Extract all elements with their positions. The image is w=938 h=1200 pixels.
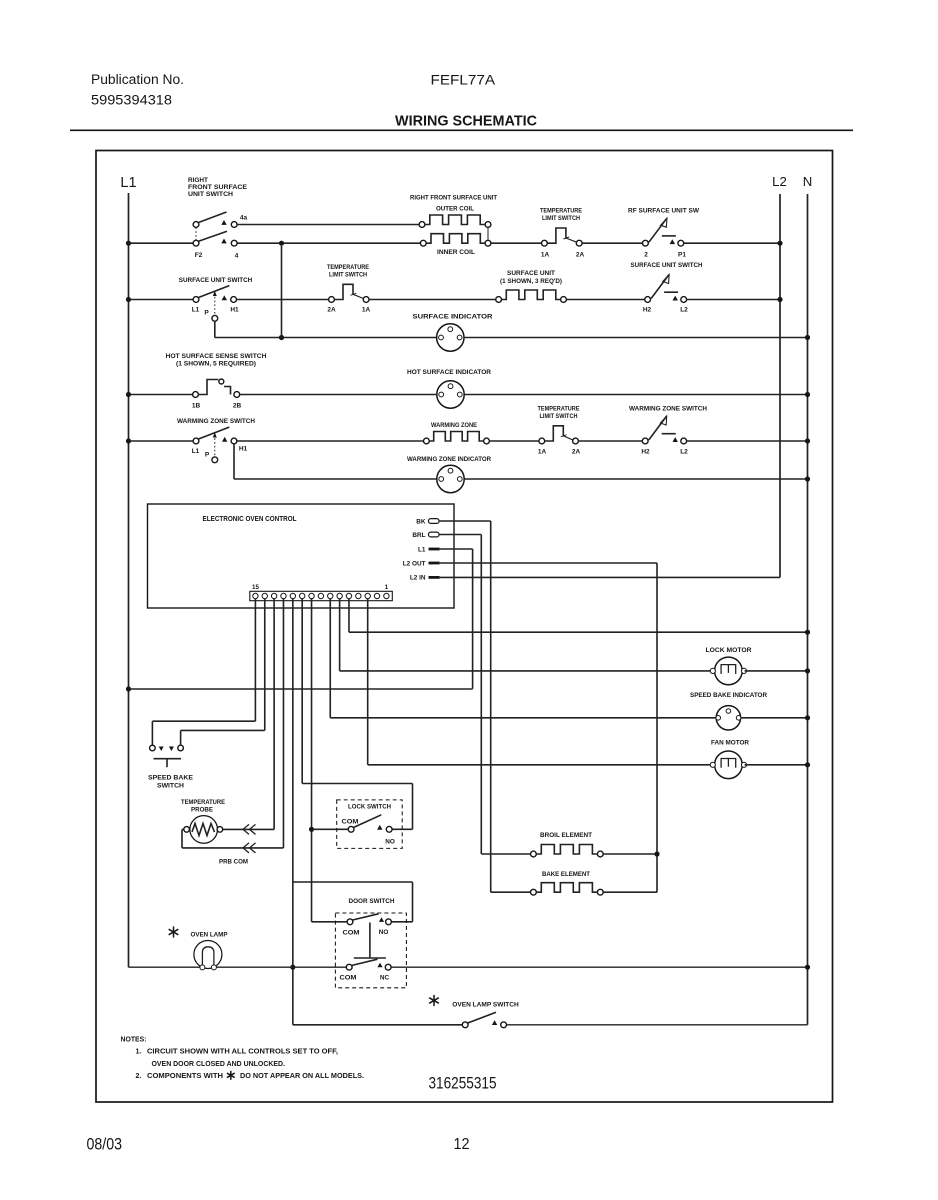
svg-text:L2: L2 — [772, 174, 787, 189]
svg-text:CIRCUIT SHOWN WITH ALL CONTROL: CIRCUIT SHOWN WITH ALL CONTROLS SET TO O… — [147, 1049, 338, 1056]
svg-text:LOCK MOTOR: LOCK MOTOR — [706, 647, 752, 654]
svg-text:2.: 2. — [136, 1073, 142, 1080]
svg-text:RIGHT FRONT SURFACE UNIT: RIGHT FRONT SURFACE UNIT — [410, 195, 497, 202]
svg-text:1A: 1A — [541, 252, 550, 259]
svg-text:12: 12 — [454, 1136, 470, 1153]
svg-text:SURFACE UNIT SWITCH: SURFACE UNIT SWITCH — [631, 262, 703, 269]
svg-text:COM: COM — [340, 975, 357, 982]
svg-text:FAN MOTOR: FAN MOTOR — [711, 740, 749, 747]
svg-text:NOTES:: NOTES: — [121, 1035, 147, 1044]
svg-text:L2 IN: L2 IN — [410, 575, 426, 582]
svg-text:DO NOT APPEAR ON ALL MODELS.: DO NOT APPEAR ON ALL MODELS. — [240, 1073, 364, 1080]
svg-text:(1 SHOWN, 3 REQ'D): (1 SHOWN, 3 REQ'D) — [500, 278, 562, 285]
svg-text:NC: NC — [380, 975, 390, 982]
svg-text:5995394318: 5995394318 — [91, 93, 172, 108]
svg-text:BROIL ELEMENT: BROIL ELEMENT — [540, 832, 592, 839]
svg-text:1A: 1A — [538, 449, 547, 456]
svg-text:TEMPERATURE: TEMPERATURE — [540, 208, 583, 215]
svg-text:SURFACE UNIT: SURFACE UNIT — [507, 270, 555, 277]
svg-text:H2: H2 — [643, 307, 652, 314]
svg-text:HOT SURFACE INDICATOR: HOT SURFACE INDICATOR — [407, 369, 491, 376]
svg-text:LIMIT SWITCH: LIMIT SWITCH — [540, 413, 578, 420]
svg-text:1.: 1. — [136, 1049, 142, 1056]
svg-text:4a: 4a — [240, 215, 248, 222]
svg-text:1A: 1A — [362, 307, 371, 314]
svg-text:BK: BK — [416, 518, 426, 525]
svg-text:SPEED BAKE: SPEED BAKE — [148, 775, 194, 782]
svg-text:SURFACE INDICATOR: SURFACE INDICATOR — [413, 314, 493, 321]
svg-text:WARMING ZONE SWITCH: WARMING ZONE SWITCH — [177, 418, 255, 425]
svg-text:TEMPERATURE: TEMPERATURE — [181, 799, 226, 806]
svg-text:COM: COM — [343, 930, 360, 937]
svg-text:P: P — [204, 310, 209, 317]
svg-text:COM: COM — [342, 819, 359, 826]
svg-text:HOT SURFACE SENSE SWITCH: HOT SURFACE SENSE SWITCH — [166, 353, 267, 360]
svg-text:SPEED BAKE INDICATOR: SPEED BAKE INDICATOR — [690, 692, 767, 699]
svg-text:LIMIT SWITCH: LIMIT SWITCH — [542, 215, 580, 222]
svg-text:L1: L1 — [192, 448, 200, 455]
svg-text:TEMPERATURE: TEMPERATURE — [327, 264, 370, 271]
svg-text:FRONT SURFACE: FRONT SURFACE — [188, 184, 248, 191]
svg-text:PROBE: PROBE — [191, 807, 214, 814]
svg-text:1: 1 — [385, 584, 389, 591]
svg-text:2A: 2A — [572, 449, 581, 456]
svg-text:L1: L1 — [120, 175, 136, 191]
svg-text:ELECTRONIC OVEN CONTROL: ELECTRONIC OVEN CONTROL — [203, 516, 298, 523]
svg-text:316255315: 316255315 — [429, 1075, 497, 1093]
svg-text:COMPONENTS WITH: COMPONENTS WITH — [147, 1073, 223, 1080]
svg-text:WARMING ZONE SWITCH: WARMING ZONE SWITCH — [629, 406, 707, 413]
svg-text:P: P — [205, 452, 210, 459]
svg-text:INNER COIL: INNER COIL — [437, 249, 475, 256]
svg-text:WIRING SCHEMATIC: WIRING SCHEMATIC — [395, 113, 537, 130]
svg-text:H1: H1 — [230, 307, 239, 314]
svg-text:L1: L1 — [418, 546, 426, 553]
svg-text:Publication No.: Publication No. — [91, 72, 184, 87]
svg-text:SURFACE UNIT SWITCH: SURFACE UNIT SWITCH — [179, 277, 253, 284]
svg-text:RF SURFACE UNIT SW: RF SURFACE UNIT SW — [628, 208, 700, 215]
svg-text:1B: 1B — [192, 403, 201, 410]
svg-text:SWITCH: SWITCH — [157, 783, 184, 790]
svg-text:LOCK SWITCH: LOCK SWITCH — [348, 804, 391, 811]
svg-text:PRB COM: PRB COM — [219, 859, 248, 866]
svg-text:OVEN DOOR CLOSED AND UNLOCKED.: OVEN DOOR CLOSED AND UNLOCKED. — [152, 1061, 286, 1068]
svg-text:H2: H2 — [641, 449, 650, 456]
svg-text:L1: L1 — [192, 307, 200, 314]
svg-text:UNIT SWITCH: UNIT SWITCH — [188, 191, 233, 198]
svg-text:RIGHT: RIGHT — [188, 177, 208, 184]
svg-text:WARMING ZONE INDICATOR: WARMING ZONE INDICATOR — [407, 456, 491, 463]
svg-text:DOOR SWITCH: DOOR SWITCH — [349, 898, 395, 905]
svg-text:L2: L2 — [680, 307, 688, 314]
svg-text:2A: 2A — [327, 307, 336, 314]
svg-text:OVEN LAMP: OVEN LAMP — [191, 932, 229, 939]
svg-text:N: N — [803, 174, 813, 189]
svg-text:FEFL77A: FEFL77A — [431, 72, 496, 88]
svg-text:P1: P1 — [678, 252, 686, 259]
svg-text:BAKE ELEMENT: BAKE ELEMENT — [542, 871, 590, 878]
svg-text:15: 15 — [252, 584, 259, 591]
svg-text:LIMIT SWITCH: LIMIT SWITCH — [329, 272, 367, 279]
svg-text:2B: 2B — [233, 403, 242, 410]
svg-text:2: 2 — [644, 252, 648, 259]
svg-text:L2 OUT: L2 OUT — [403, 560, 426, 567]
svg-text:NO: NO — [385, 839, 395, 846]
svg-text:H1: H1 — [239, 446, 248, 453]
svg-text:TEMPERATURE: TEMPERATURE — [538, 406, 581, 413]
svg-text:08/03: 08/03 — [87, 1135, 123, 1154]
svg-text:NO: NO — [379, 929, 389, 936]
svg-text:F2: F2 — [195, 252, 203, 259]
svg-text:WARMING ZONE: WARMING ZONE — [431, 422, 478, 429]
svg-text:(1 SHOWN, 5 REQUIRED): (1 SHOWN, 5 REQUIRED) — [176, 361, 256, 368]
svg-text:2A: 2A — [576, 252, 585, 259]
svg-text:OVEN LAMP SWITCH: OVEN LAMP SWITCH — [452, 1002, 519, 1009]
svg-text:L2: L2 — [680, 449, 688, 456]
svg-text:4: 4 — [235, 253, 239, 260]
svg-text:OUTER COIL: OUTER COIL — [436, 206, 474, 213]
svg-text:BRL: BRL — [412, 532, 425, 539]
